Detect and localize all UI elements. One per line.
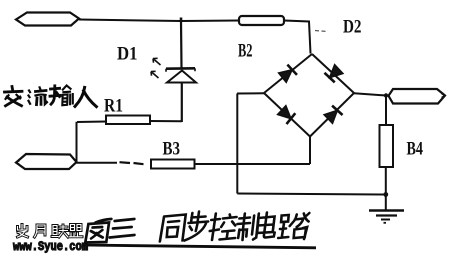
svg-text:B3: B3 [163,139,181,160]
wire B4 bottom [385,167,387,211]
同 [160,215,186,242]
resistor B2 [239,16,284,25]
arrows at D1 (LED arrows) [151,58,161,78]
入 [75,87,96,106]
resistor R1 [106,116,150,125]
制 [236,214,259,241]
wire B3 right to bridge bottom [195,163,311,165]
图 [85,219,111,243]
ground [369,211,404,223]
bridge arm bottom-right [310,93,354,137]
联 [52,225,68,237]
交 [5,87,23,106]
svg-text:D2: D2 [343,17,362,38]
caption underline [82,245,316,248]
svg-text:B4: B4 [407,139,424,160]
wire B4 top [385,96,387,126]
bridge diode top-right [324,64,343,83]
terminal input top-left [16,13,79,26]
输 [50,86,60,104]
terminal output right [389,89,446,104]
流 [36,91,47,105]
node junction D1 top [180,18,183,23]
svg-text:B2: B2 [238,41,253,62]
wire bottom-left horizontal [77,162,118,164]
步 [184,212,209,241]
resistor B4 [380,125,394,167]
路 [278,213,309,239]
电 [257,213,277,238]
bridge arm top-left [264,54,312,93]
bridge arm bottom-left [264,93,310,137]
diode D1 [166,68,196,82]
盟 [70,225,83,237]
node junction ground rail [383,192,388,197]
wire bridge bottom vertex down [309,137,311,165]
wire dash segment [120,162,144,164]
wire bridge left vertex to left rail [237,92,264,94]
svg-text:R1: R1 [104,96,123,117]
caption 图三 [85,219,136,243]
text AC input 交流输入 [5,85,97,106]
wire bridge right vertex to junction [354,93,386,95]
watermark 岁月联盟 [18,225,83,238]
bridge diode top-left [278,64,297,83]
wire B2 right + corner down [284,21,311,54]
bridge diode bottom-left [277,105,296,124]
wire bottom rail [237,194,385,195]
node junction right [384,93,388,97]
控 [209,214,237,241]
wire R1 left [77,121,106,124]
terminal input bottom-left [16,154,77,169]
resistor B3 [151,160,195,169]
月 [35,225,46,237]
wire D1 vertical upper [180,21,183,68]
wire left rail vertical [236,94,238,194]
wire D1 vertical lower [181,83,183,123]
caption 同步控制电路 [160,212,310,242]
svg-text:www.Syue.com: www.Syue.com [13,240,88,254]
wire R1 right [150,120,182,122]
bridge arm top-right [312,54,354,93]
三 [110,219,136,238]
svg-text:D1: D1 [117,44,138,65]
wire left vertical [76,122,78,163]
small dashes near D2 [315,30,326,33]
bridge diode bottom-right [323,105,342,124]
岁 [18,225,28,238]
wire top horizontal [79,20,239,22]
